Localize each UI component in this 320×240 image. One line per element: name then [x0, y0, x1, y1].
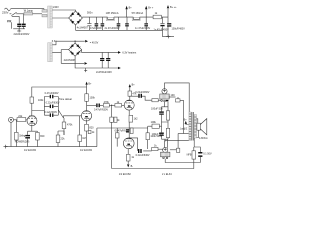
- wire splitter plate to coupling cap upper: [130, 96, 152, 100]
- svg-text:0.47uF/400V: 0.47uF/400V: [45, 92, 59, 95]
- AC source sine symbol: [5, 8, 11, 11]
- output transformer OPT primary: [189, 112, 191, 141]
- coupling cap C13 tube2 plate: [87, 104, 97, 106]
- screen resistor R27 lower: [170, 149, 177, 151]
- wire fuse to primary: [33, 13, 43, 15]
- wire wiper to tube2 grid: [64, 116, 82, 118]
- svg-text:1/2 ECC82: 1/2 ECC82: [24, 149, 37, 152]
- svg-text:240V: 240V: [53, 6, 59, 9]
- svg-text:1k2: 1k2: [134, 118, 139, 121]
- wire to bridge2 left corner: [61, 49, 68, 51]
- B+ rail from BR1: [82, 16, 168, 18]
- tube V1b triode: [86, 101, 88, 111]
- resistor R7 220k: [56, 135, 60, 143]
- grid leak R8 1M tube2: [79, 116, 81, 135]
- BR1 diode 2: [77, 12, 82, 17]
- wire tube V2b plate to coupling cap lower: [129, 138, 152, 151]
- wire lower EL34 bottom to return: [165, 159, 194, 163]
- resistor R6 470k: [63, 118, 65, 122]
- svg-text:4x1N4007: 4x1N4007: [77, 27, 89, 30]
- cathode resistor R26 lower: [166, 128, 169, 137]
- grid leak R22 lower: [147, 128, 149, 133]
- svg-text:W 1amp: W 1amp: [24, 10, 34, 13]
- cathode bypass cap C17 upper: [159, 111, 164, 112]
- svg-text:B+ +: B+ +: [148, 7, 154, 10]
- wire neutral lower: [10, 13, 12, 15]
- heater cap C11: [107, 52, 109, 68]
- svg-text:47uF/400V: 47uF/400V: [90, 27, 102, 30]
- B+ arrow 2: [145, 9, 147, 17]
- tube V2a splitter triode: [129, 96, 131, 100]
- cap C8 47uF/450V: [162, 17, 164, 30]
- choke L1: [106, 17, 114, 20]
- cap C4 47uF/400V: [101, 17, 103, 30]
- choke L1 dip: [108, 17, 114, 19]
- svg-text:820: 820: [89, 127, 94, 130]
- svg-text:5H 150mA: 5H 150mA: [132, 12, 144, 15]
- cathode resistor R24 upper: [166, 111, 169, 120]
- grid leak R4 1Meg: [15, 120, 17, 133]
- wire left AC to lower arrow: [61, 62, 84, 64]
- svg-text:2x 47uF/400V: 2x 47uF/400V: [105, 27, 121, 30]
- bridge rectifier BR1 diamond: [69, 11, 83, 25]
- B+ arrow 1: [126, 9, 128, 17]
- svg-text:4x1N5408: 4x1N5408: [64, 59, 76, 62]
- wire into box1: [43, 9, 45, 10]
- output tube V3 EL34 upper: [162, 89, 167, 94]
- svg-text:2x100nF/630V: 2x100nF/630V: [14, 33, 30, 36]
- screen resistor R23 upper: [169, 96, 175, 98]
- cap C7: [145, 17, 147, 30]
- svg-text:0.1uF/400V: 0.1uF/400V: [44, 111, 57, 114]
- wire to fuse: [16, 13, 24, 15]
- arrow heater minus: [118, 67, 121, 70]
- junction node bridge2 top: [74, 41, 75, 42]
- ground rail amp: [6, 146, 97, 148]
- caps bottom join bar: [13, 28, 25, 30]
- B+ arrow output stage: [186, 123, 189, 126]
- svg-text:100uF/400V: 100uF/400V: [172, 27, 186, 30]
- bias feed resistor R25: [152, 124, 159, 128]
- arrow 40.5V: [85, 40, 88, 43]
- NFB resistor R28: [192, 151, 196, 159]
- svg-text:100k: 100k: [38, 99, 44, 102]
- heater cap C10: [101, 52, 103, 68]
- X2 cap C1: [12, 16, 19, 29]
- tone switch bus: [57, 97, 59, 116]
- wire cathode chain down: [128, 122, 130, 138]
- NFB resistor R14 100k: [114, 117, 117, 122]
- svg-text:6.3V heaters: 6.3V heaters: [122, 52, 137, 55]
- grid stopper R21 lower EL34: [152, 147, 158, 150]
- NFB resistor R13 470k: [111, 105, 113, 117]
- wire BR1 bottom to ground rail: [75, 25, 77, 30]
- svg-text:470k: 470k: [67, 123, 73, 126]
- cap C3 47uF/400V: [95, 17, 97, 30]
- coupling cap C16 lower: [138, 149, 139, 153]
- speaker LS1: [197, 119, 198, 123]
- BR1 diode 4: [77, 19, 82, 24]
- NFB tap wire: [194, 138, 201, 152]
- plate resistor R2 100k: [30, 97, 34, 103]
- wire secondary to bridge1 left: [52, 17, 68, 19]
- B+ arrow splitter: [129, 87, 131, 91]
- zobel cap C19: [198, 152, 202, 154]
- output tube V4 EL34 lower: [163, 147, 168, 152]
- BR2 diode 1: [70, 44, 74, 48]
- choke L2: [132, 17, 140, 20]
- tube V2b cathode resistor R19: [127, 149, 129, 155]
- tube V2b splitter triode lower: [123, 138, 134, 149]
- chassis ground mark: [17, 30, 21, 33]
- svg-text:0.1 50V: 0.1 50V: [203, 152, 212, 155]
- resistor R18: [116, 128, 118, 133]
- arrow lower AC: [85, 62, 88, 65]
- input jack J1: [9, 117, 14, 122]
- screen bus: [178, 133, 189, 135]
- transformer T1 core and HV secondary winding: [48, 6, 53, 28]
- svg-text:= 40.5V: = 40.5V: [90, 41, 99, 44]
- wire to upper EL34 grid: [158, 99, 161, 101]
- cathode resistor R5: [36, 131, 38, 132]
- bridge rectifier BR2 diamond: [69, 43, 82, 56]
- wire to lower EL34 grid: [158, 148, 163, 150]
- tube V1a triode 1/2 ECC82: [27, 116, 37, 126]
- bias arrow below R19: [127, 161, 129, 164]
- junction node mix: [109, 104, 115, 106]
- svg-text:NFB: NFB: [187, 154, 192, 157]
- svg-text:100: 100: [171, 94, 176, 97]
- svg-text:[out]/Ξ: [out]/Ξ: [180, 127, 187, 130]
- svg-text:4-8Ohm: 4-8Ohm: [199, 137, 208, 140]
- svg-text:2x4700uF/40V: 2x4700uF/40V: [96, 71, 112, 74]
- wire live top: [11, 8, 45, 10]
- svg-text:1M: 1M: [82, 137, 85, 140]
- NFB drop wire: [111, 122, 113, 168]
- transformer T1 6.3V winding: [48, 43, 53, 62]
- wire tube1 plate to tone network: [32, 97, 45, 116]
- cathode wire lower EL34: [166, 139, 168, 148]
- wire 6.3V winding top tap: [52, 41, 85, 45]
- B+ feed rail preamp: [32, 87, 87, 97]
- svg-text:0.47uF/630V: 0.47uF/630V: [94, 108, 108, 111]
- cap C9 100uF/400V: [167, 17, 169, 36]
- chassis ground mark right: [166, 35, 170, 39]
- grid stopper R20 upper EL34: [152, 99, 158, 102]
- svg-text:B-: B-: [131, 165, 134, 168]
- wire BR2 bottom corner down: [75, 56, 118, 68]
- B+ arrow 3: [167, 9, 169, 17]
- ground tick heater rail: [84, 68, 87, 72]
- svg-text:0.22uF/630V: 0.22uF/630V: [46, 102, 60, 105]
- svg-text:470k: 470k: [104, 101, 110, 104]
- svg-text:10H 250mA: 10H 250mA: [106, 12, 119, 15]
- cap C6: [126, 17, 128, 30]
- BR2 diode 3: [70, 51, 74, 55]
- svg-text:100uF 50V: 100uF 50V: [151, 108, 163, 111]
- svg-text:1/2 ECC82: 1/2 ECC82: [119, 173, 132, 176]
- plate resistor R15 splitter: [128, 91, 132, 96]
- earth symbol: [7, 21, 11, 22]
- fuse F1 box: [24, 12, 33, 15]
- coupling cap C15 upper: [138, 94, 139, 98]
- tube2 cathode resistor R10: [86, 120, 88, 125]
- wire jack to grid resistor: [14, 119, 18, 121]
- cathode column wire upper: [162, 102, 169, 107]
- chassis ground mark amp left: [4, 145, 8, 149]
- NFB return wire: [112, 157, 201, 169]
- wire secondary bottom: [197, 130, 199, 137]
- resistor R17: [130, 128, 133, 134]
- resistor R12 1k: [115, 104, 122, 107]
- splitter cathode resistor R16: [128, 110, 130, 115]
- small resistor R10b near tube2: [88, 130, 91, 133]
- wire secondary top to bridge1: [52, 10, 75, 11]
- cap C5: [118, 17, 120, 30]
- svg-text:1/2 ECC82: 1/2 ECC82: [80, 149, 93, 152]
- svg-text:Tone defeat: Tone defeat: [59, 98, 72, 101]
- choke L2 dip: [133, 17, 139, 19]
- BR1 diode 3: [70, 19, 75, 24]
- BR2 diode 4: [76, 51, 80, 55]
- bias bus: [97, 128, 148, 147]
- wire to R11: [100, 104, 103, 106]
- tone switch wiper: [58, 110, 63, 118]
- transformer T1 primary terminal box 2: [42, 14, 47, 17]
- ground rail PSU: [76, 30, 175, 36]
- svg-text:B+ ++: B+ ++: [170, 6, 177, 9]
- resistor R11 470k: [103, 104, 109, 107]
- svg-text:820: 820: [40, 135, 45, 138]
- resistor R1 1k: [153, 15, 161, 19]
- cap C14 on bus: [126, 129, 129, 130]
- wire 6.3V winding bottom tap: [52, 50, 61, 64]
- svg-text:230V: 230V: [2, 11, 9, 15]
- svg-text:100k: 100k: [151, 121, 157, 124]
- svg-text:100k: 100k: [90, 97, 96, 100]
- wire to tube1 grid: [26, 119, 27, 121]
- svg-text:POWER(2W): POWER(2W): [15, 140, 30, 143]
- plate wire upper EL34 to OPT: [165, 83, 190, 112]
- wire to tube3 grid: [122, 104, 125, 106]
- cathode bypass cap C12: [27, 131, 29, 146]
- wire plate resistor to tube1: [31, 103, 33, 116]
- plate resistor R9 100k tube2: [85, 94, 89, 102]
- arrow heater plus: [118, 51, 121, 54]
- svg-text:1Meg: 1Meg: [19, 134, 26, 137]
- svg-text:500n: 500n: [87, 12, 93, 15]
- plate wire lower EL34 to OPT: [165, 140, 189, 147]
- svg-text:0.22uF/630V: 0.22uF/630V: [136, 154, 150, 157]
- OPT secondary: [194, 115, 196, 139]
- svg-text:2 x EL34: 2 x EL34: [162, 173, 172, 176]
- BR2 diode 2: [76, 44, 80, 48]
- wire BR2 right corner to heater rail: [82, 50, 118, 53]
- transformer T1 primary terminal box 1: [42, 10, 47, 13]
- svg-text:100uF 50V: 100uF 50V: [152, 133, 164, 136]
- svg-text:1x 47uF/400V: 1x 47uF/400V: [135, 27, 151, 30]
- cathode bypass cap C18 lower: [159, 133, 164, 134]
- OPT core: [192, 112, 194, 141]
- tube1 cathode node: [28, 125, 38, 132]
- X2 cap C2: [23, 14, 25, 29]
- grid resistor R3 22k: [17, 118, 26, 122]
- wire jack down to ground: [10, 122, 12, 146]
- wire to bridge2 top corner: [74, 41, 76, 43]
- BR1 diode 1: [70, 12, 75, 17]
- B+ arrow tube2: [86, 85, 88, 94]
- cathode column lower ties: [162, 122, 169, 142]
- ground stem: [18, 29, 20, 31]
- svg-text:0.22uF/630V: 0.22uF/630V: [135, 91, 149, 94]
- switch S1: [11, 12, 16, 15]
